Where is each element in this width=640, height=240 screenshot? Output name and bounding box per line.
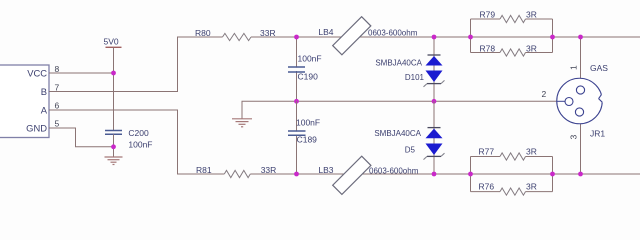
svg-text:R79: R79 xyxy=(480,10,496,20)
svg-text:D5: D5 xyxy=(405,146,416,155)
wire top rail xyxy=(251,36,640,38)
svg-text:VCC: VCC xyxy=(27,68,47,79)
junction D101 top xyxy=(432,35,437,40)
resistor R81 xyxy=(224,170,250,177)
connector pin 2 circle xyxy=(565,98,573,106)
ferrite bead LB4 xyxy=(333,17,371,55)
connector pin 3 circle xyxy=(575,108,583,116)
TVS diode D101 xyxy=(424,55,445,87)
svg-text:3R: 3R xyxy=(526,147,537,157)
svg-text:R77: R77 xyxy=(479,147,495,157)
ground (below C200) xyxy=(105,157,123,165)
capacitor C189 xyxy=(288,131,306,135)
wire D101 stem xyxy=(433,37,435,101)
svg-text:SMBJA40CA: SMBJA40CA xyxy=(374,129,421,138)
junction D101/D5 middle xyxy=(432,99,437,104)
connector JR1 body xyxy=(557,78,608,124)
wire C200 bottom to ground xyxy=(113,134,115,157)
connector pin2 lead xyxy=(557,100,565,102)
junction loop-bottom left xyxy=(468,172,473,177)
svg-text:2: 2 xyxy=(542,89,547,99)
svg-text:5: 5 xyxy=(55,119,60,129)
wire to connector pin1 xyxy=(580,37,582,86)
wire pin5 to C200 node xyxy=(49,128,114,147)
resistor R79 xyxy=(500,15,526,22)
junction pin3 drop xyxy=(578,172,583,177)
svg-text:B: B xyxy=(41,86,47,97)
wire to connector pin3 xyxy=(580,116,582,174)
svg-text:LB3: LB3 xyxy=(318,165,333,175)
svg-text:5V0: 5V0 xyxy=(104,37,119,47)
junction loop-bottom right xyxy=(550,172,555,177)
wire 5V0 vertical to C200 xyxy=(113,47,115,130)
svg-text:SMBJA40CA: SMBJA40CA xyxy=(375,59,422,68)
svg-text:100nF: 100nF xyxy=(128,140,152,150)
svg-text:R80: R80 xyxy=(195,28,211,38)
svg-text:100nF: 100nF xyxy=(296,118,320,128)
svg-text:33R: 33R xyxy=(261,165,277,175)
svg-text:A: A xyxy=(41,105,48,116)
resistor R77 xyxy=(500,153,526,160)
connector pin 1 circle xyxy=(576,86,584,94)
wire parallel loop top (R79/R78 frame) xyxy=(471,19,553,53)
resistor R78 xyxy=(500,49,526,56)
svg-text:0603-600ohm: 0603-600ohm xyxy=(369,167,419,176)
svg-text:LB4: LB4 xyxy=(318,27,333,37)
svg-text:3R: 3R xyxy=(526,44,537,54)
junction loop-top left xyxy=(468,35,473,40)
junction C190 bottom xyxy=(294,99,299,104)
svg-text:C189: C189 xyxy=(297,135,318,145)
svg-text:0603-600ohm: 0603-600ohm xyxy=(368,29,418,38)
svg-text:C200: C200 xyxy=(128,128,149,138)
svg-text:C190: C190 xyxy=(298,72,319,82)
junction pin8/5V0 xyxy=(111,71,116,76)
wire pin6 to bottom rail corner xyxy=(49,110,224,174)
wire pin8 to 5V0 node xyxy=(49,72,114,74)
junction C189 bottom xyxy=(294,172,299,177)
svg-text:1: 1 xyxy=(569,65,579,70)
wire D5 stem xyxy=(433,101,435,174)
svg-text:JR1: JR1 xyxy=(590,129,605,139)
TVS diode D5 xyxy=(424,128,445,160)
resistor R80 xyxy=(223,33,252,40)
wire C190 stems xyxy=(296,37,298,101)
svg-text:6: 6 xyxy=(55,101,60,111)
capacitor C200 xyxy=(105,131,122,135)
resistor R76 xyxy=(500,188,526,195)
wire bottom rail xyxy=(250,173,640,175)
svg-text:3: 3 xyxy=(569,135,579,140)
junction pin1 drop xyxy=(578,35,583,40)
wire parallel loop bottom (R77/R76 frame) xyxy=(471,157,553,192)
svg-text:100nF: 100nF xyxy=(298,54,322,64)
svg-text:GND: GND xyxy=(26,123,47,134)
ferrite bead LB3 xyxy=(333,156,371,194)
junction C190 top xyxy=(294,35,299,40)
junction D5 bottom xyxy=(432,172,437,177)
capacitor C190 xyxy=(288,67,305,72)
junction C200/pin5 xyxy=(111,144,116,149)
wire C189 stems xyxy=(296,101,298,174)
svg-text:3R: 3R xyxy=(526,182,537,192)
ground (middle rail) xyxy=(232,119,252,127)
svg-text:R76: R76 xyxy=(479,182,495,192)
svg-text:3R: 3R xyxy=(526,10,537,20)
svg-text:R81: R81 xyxy=(196,165,212,175)
svg-text:R78: R78 xyxy=(480,44,496,54)
wire middle rail xyxy=(242,101,557,119)
power 5V0 bar xyxy=(106,46,122,48)
IC box xyxy=(0,65,49,138)
svg-text:GAS: GAS xyxy=(590,63,608,73)
svg-text:D101: D101 xyxy=(405,73,425,82)
junction loop-top right xyxy=(550,35,555,40)
wire pin7 to top rail corner xyxy=(49,37,223,92)
